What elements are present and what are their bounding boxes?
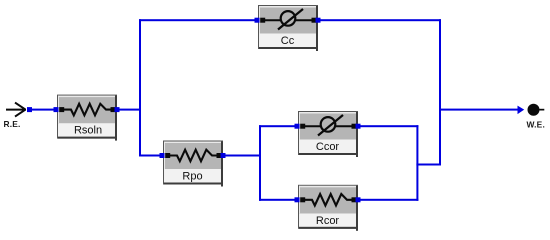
resistor Rsoln — [54, 95, 120, 141]
resistor Rcor — [295, 185, 361, 231]
wire left vertical of parallel group — [259, 125, 261, 201]
node A (R.E. connection) — [27, 107, 32, 112]
svg-text:R.E.: R.E. — [4, 119, 21, 129]
wire jog to right riser — [416, 164, 441, 166]
wire to Ccor left — [259, 125, 298, 127]
wire right riser — [439, 19, 441, 165]
wire arrowhead at W.E. — [518, 106, 525, 115]
svg-text:W.E.: W.E. — [527, 120, 545, 130]
wire center riser — [139, 19, 141, 156]
terminal W.E. (black dot) — [528, 104, 540, 116]
svg-text:Rpo: Rpo — [182, 171, 202, 183]
wire Rsoln to center riser — [117, 109, 141, 111]
svg-text:Ccor: Ccor — [316, 141, 340, 153]
capacitor Ccor — [295, 111, 361, 157]
capacitor Cc — [255, 5, 321, 51]
wire top branch left — [139, 19, 258, 21]
wire Rcor right — [358, 199, 418, 201]
svg-text:Cc: Cc — [281, 35, 295, 47]
wire right vertical of parallel group — [416, 125, 418, 201]
wire Ccor right — [358, 125, 418, 127]
terminal R.E. — [6, 103, 26, 117]
wire R.E. to Rsoln — [27, 109, 58, 111]
resistor Rpo — [160, 141, 226, 187]
wire top branch right — [318, 19, 441, 21]
svg-text:Rsoln: Rsoln — [74, 125, 102, 137]
wire riser to Rpo — [139, 155, 163, 157]
svg-text:Rcor: Rcor — [316, 215, 340, 227]
wire Rpo to parallel group — [223, 155, 261, 157]
wire to W.E. — [440, 109, 520, 111]
wire to Rcor left — [259, 199, 298, 201]
